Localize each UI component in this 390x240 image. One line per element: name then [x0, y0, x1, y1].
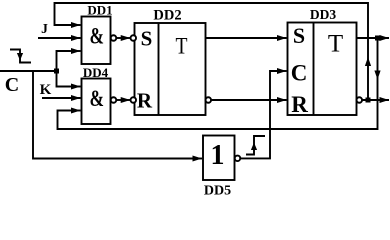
svg-text:J: J: [41, 21, 48, 36]
svg-text:T: T: [176, 34, 188, 59]
output bubble DD5: [235, 156, 241, 162]
wire: feedback top (Qbar to DD1 input 1): [55, 3, 369, 99]
label DD5: [204, 184, 231, 199]
svg-text:DD4: DD4: [83, 65, 109, 80]
output bubble DD4: [111, 97, 117, 103]
label & in DD1: [90, 24, 105, 49]
wire: DD4 output to DD2 R input: [116, 99, 130, 101]
label C in DD3: [291, 61, 308, 86]
svg-text:S: S: [141, 27, 153, 51]
svg-text:C: C: [5, 74, 19, 96]
wire: DD1 output to DD2 S input: [116, 37, 130, 39]
label DD3: [310, 7, 336, 22]
junction node at DD3 Qbar output: [366, 98, 371, 103]
svg-text:DD3: DD3: [310, 7, 336, 22]
wire: C branch to DD1 input 3: [57, 51, 81, 71]
svg-text:C: C: [291, 61, 308, 86]
label R in DD2: [137, 89, 153, 113]
flip-flop DD2 box: [135, 23, 206, 115]
svg-text:R: R: [137, 89, 153, 113]
label S in DD3: [293, 23, 305, 48]
svg-text:DD2: DD2: [153, 8, 181, 24]
input bubble DD2 S: [131, 35, 137, 41]
rising edge symbol at DD3 C input: [246, 136, 265, 155]
svg-text:&: &: [90, 86, 105, 111]
label DD2: [153, 8, 181, 24]
label J input: [41, 21, 48, 36]
label DD4: [83, 65, 109, 80]
wire: K input line: [42, 97, 81, 99]
wire: DD5 output to DD3 C input: [240, 71, 287, 158]
label T in DD3: [328, 31, 343, 58]
input bubble DD2 R: [131, 97, 137, 103]
flip-flop DD3 box: [288, 23, 357, 116]
label K input: [40, 82, 52, 98]
label DD1: [87, 3, 112, 18]
output bubble DD2 Qbar: [206, 97, 212, 103]
label R in DD3: [291, 92, 308, 117]
AND gate DD1 box: [82, 17, 111, 65]
wire: DD3 Qbar output terminal: [362, 99, 389, 101]
junction node at DD3 Q output: [375, 36, 380, 41]
label S in DD2: [141, 27, 153, 51]
wire: C branch to DD4 input 1: [57, 71, 81, 87]
wire: Q feedback to DD4 input 3: [58, 38, 378, 129]
falling edge symbol at C input: [10, 50, 31, 63]
wire: DD2 Qbar output to DD3 R input: [211, 99, 287, 101]
svg-text:K: K: [40, 82, 52, 98]
junction node at C line: [54, 69, 59, 74]
label 1 in DD5: [211, 140, 225, 171]
wire: DD3 Q output terminal: [357, 37, 390, 39]
wire: J input line: [38, 37, 81, 39]
output bubble DD1: [111, 35, 117, 41]
AND gate DD4 box: [82, 79, 111, 125]
svg-text:DD5: DD5: [204, 184, 231, 197]
wire: DD2 Q output to DD3 S input: [206, 37, 287, 39]
signal direction arrow up on Qbar feedback wire: [365, 57, 371, 66]
wire: C input line: [0, 70, 57, 72]
wire: C branch to DD5 input: [33, 71, 202, 159]
svg-text:&: &: [90, 24, 105, 49]
label T in DD2: [176, 34, 188, 59]
signal direction arrow down on Q feedback wire: [374, 71, 380, 80]
svg-text:1: 1: [211, 140, 225, 171]
svg-text:S: S: [293, 23, 305, 48]
label & in DD4: [90, 86, 105, 111]
output bubble DD3 Qbar: [357, 97, 363, 103]
label C input: [5, 74, 19, 96]
svg-text:R: R: [291, 92, 308, 117]
svg-text:DD1: DD1: [87, 3, 112, 18]
svg-text:T: T: [328, 31, 343, 58]
inverter DD5 box: [203, 136, 235, 181]
